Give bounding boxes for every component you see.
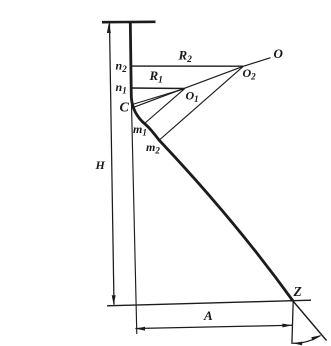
- svg-text:R2: R2: [178, 48, 193, 66]
- svg-text:O2: O2: [243, 66, 257, 82]
- svg-text:Z: Z: [293, 284, 302, 299]
- svg-text:n1: n1: [116, 80, 127, 96]
- svg-text:A: A: [203, 308, 213, 323]
- svg-text:n2: n2: [116, 59, 128, 75]
- svg-text:O: O: [274, 46, 284, 61]
- svg-text:m2: m2: [146, 140, 160, 156]
- svg-text:C: C: [120, 101, 130, 116]
- svg-text:R1: R1: [149, 68, 163, 86]
- svg-text:O1: O1: [186, 89, 199, 105]
- svg-text:H: H: [95, 158, 106, 172]
